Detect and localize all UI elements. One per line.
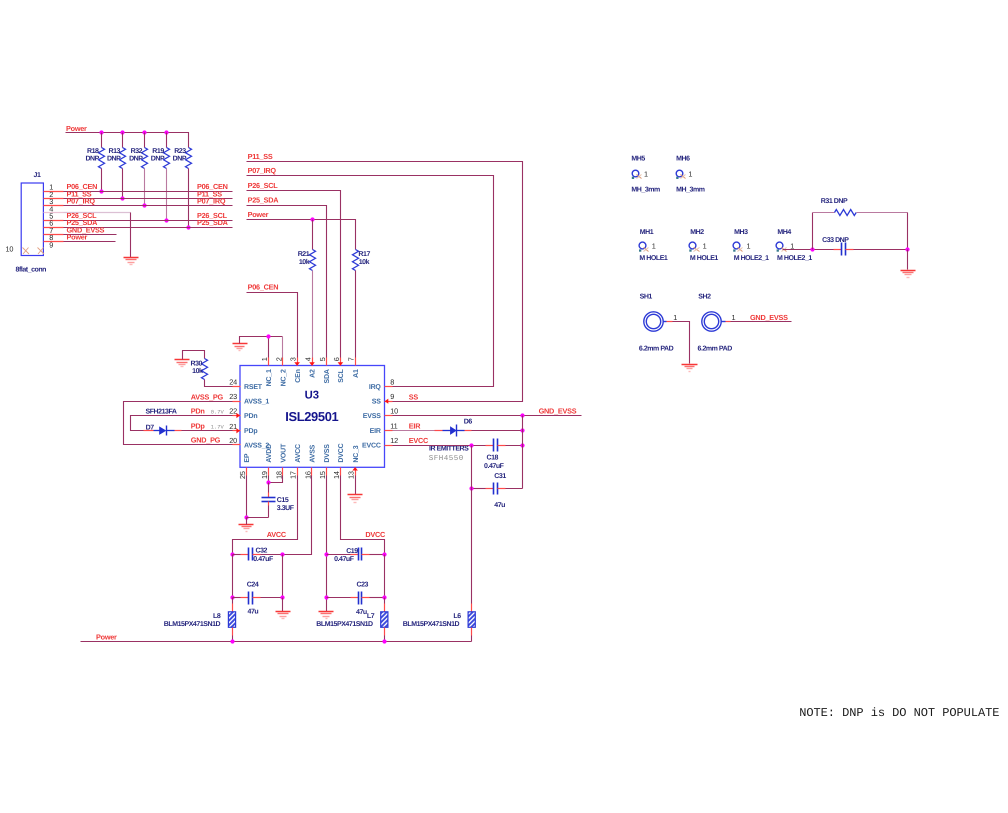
pad SH2 6.2mm bbox=[698, 294, 736, 353]
svg-text:EP: EP bbox=[244, 453, 251, 462]
wire C33 to ground corner bbox=[854, 249, 908, 251]
svg-text:NC_2: NC_2 bbox=[281, 369, 288, 386]
svg-text:5: 5 bbox=[318, 357, 327, 361]
svg-text:13: 13 bbox=[347, 471, 356, 479]
svg-text:EVCC: EVCC bbox=[409, 436, 429, 445]
wire SH2 GND_EVSS bbox=[731, 321, 792, 323]
diode D6 IR emitter bbox=[435, 419, 473, 437]
svg-text:17: 17 bbox=[289, 471, 298, 479]
wire P11_SS to pin 9 SS bbox=[247, 162, 523, 402]
junction bbox=[120, 130, 124, 134]
pin 16 AVSS bbox=[304, 444, 317, 479]
svg-text:47u: 47u bbox=[494, 502, 505, 509]
junction bbox=[99, 130, 103, 134]
wire L7 bottom lead bbox=[384, 628, 386, 636]
junction bbox=[142, 130, 146, 134]
junction bbox=[244, 515, 248, 519]
wire pin 13 NC_3 to ground bbox=[355, 476, 357, 495]
mounting hole MH5 bbox=[631, 156, 660, 194]
wire pin4 to ground bbox=[64, 212, 131, 214]
svg-text:EIR: EIR bbox=[370, 428, 381, 435]
mounting hole MH6 bbox=[676, 156, 705, 194]
wire ground chain vertical bbox=[522, 416, 524, 489]
svg-text:14: 14 bbox=[332, 471, 341, 479]
pin 10 EVSS bbox=[363, 407, 398, 420]
svg-text:DNP: DNP bbox=[107, 156, 121, 163]
wire EP to ground riser bbox=[246, 518, 248, 525]
svg-text:3: 3 bbox=[289, 357, 298, 361]
ferrite bead L6 BLM15PX471SN1D bbox=[403, 612, 476, 628]
wire R31 right vertical bbox=[907, 213, 909, 250]
svg-text:10k: 10k bbox=[299, 258, 310, 266]
wire L6 bottom lead bbox=[471, 628, 473, 636]
wire pin 15 DVSS down bbox=[326, 476, 328, 612]
svg-text:DNP: DNP bbox=[151, 156, 165, 163]
junction bbox=[324, 552, 328, 556]
svg-text:6.2mm PAD: 6.2mm PAD bbox=[698, 346, 733, 353]
svg-text:M HOLE2_1: M HOLE2_1 bbox=[777, 255, 812, 262]
svg-text:1: 1 bbox=[644, 169, 648, 178]
svg-text:U3: U3 bbox=[305, 389, 319, 401]
svg-text:P07_IRQ: P07_IRQ bbox=[248, 166, 277, 175]
svg-text:9: 9 bbox=[390, 392, 394, 401]
svg-text:19: 19 bbox=[260, 471, 269, 479]
svg-text:MH3: MH3 bbox=[734, 229, 748, 236]
svg-text:D6: D6 bbox=[464, 419, 473, 426]
wire P06_CEN row bbox=[64, 191, 233, 193]
svg-text:MH4: MH4 bbox=[777, 229, 791, 236]
svg-text:MH1: MH1 bbox=[640, 229, 654, 236]
svg-text:A2: A2 bbox=[310, 369, 317, 378]
resistor R31 DNP bbox=[813, 198, 908, 215]
svg-text:IRQ: IRQ bbox=[369, 384, 382, 391]
pin 8 of J1 bbox=[44, 241, 64, 243]
svg-text:C32: C32 bbox=[256, 548, 268, 555]
junction bbox=[810, 247, 814, 251]
svg-text:R32: R32 bbox=[131, 148, 143, 155]
wire P06_CEN to pin 3 CEn bbox=[247, 293, 298, 358]
pin 13 NC_3 bbox=[347, 445, 360, 479]
svg-text:1: 1 bbox=[673, 313, 677, 322]
wire pin 14 DVCC down bbox=[341, 476, 385, 555]
op-amp U1 IC U3 ISL29501 body bbox=[240, 366, 385, 468]
mounting hole MH2 bbox=[689, 229, 718, 262]
svg-text:8: 8 bbox=[390, 378, 394, 387]
svg-text:Power: Power bbox=[96, 633, 117, 642]
svg-text:6: 6 bbox=[332, 357, 341, 361]
wire P11_SS row bbox=[64, 198, 233, 200]
svg-text:L7: L7 bbox=[367, 613, 375, 620]
junction bbox=[120, 196, 124, 200]
wire R30 to pin 24 RSET bbox=[205, 380, 233, 387]
junction bbox=[230, 595, 234, 599]
svg-text:0.7V: 0.7V bbox=[211, 410, 225, 416]
junction bbox=[230, 552, 234, 556]
wire to ground bbox=[907, 250, 909, 270]
ground bbox=[682, 365, 698, 372]
pin 14 DVCC bbox=[332, 443, 345, 479]
svg-text:25: 25 bbox=[238, 471, 247, 479]
resistor R17 10k bbox=[353, 250, 371, 271]
svg-text:47u: 47u bbox=[248, 609, 259, 616]
wire bottom Power rail bbox=[81, 641, 472, 643]
pin 2 of J1 bbox=[44, 198, 64, 200]
junction bbox=[469, 486, 473, 490]
svg-text:SS: SS bbox=[409, 392, 419, 401]
junction bbox=[382, 639, 386, 643]
svg-text:8flat_conn: 8flat_conn bbox=[16, 265, 47, 273]
svg-text:MH_3mm: MH_3mm bbox=[676, 187, 705, 194]
svg-text:EIR: EIR bbox=[409, 422, 421, 431]
svg-text:SCL: SCL bbox=[338, 368, 345, 382]
svg-text:IR EMITTERS: IR EMITTERS bbox=[429, 446, 469, 453]
svg-text:3.3UF: 3.3UF bbox=[277, 505, 295, 512]
svg-text:DVCC: DVCC bbox=[365, 530, 386, 539]
wire Power rail to R23 bbox=[66, 133, 189, 148]
wire L7 top lead bbox=[384, 604, 386, 612]
svg-text:23: 23 bbox=[229, 392, 237, 401]
svg-text:RSET: RSET bbox=[244, 384, 263, 391]
pin 1 NC_1 bbox=[260, 357, 273, 386]
svg-text:C19: C19 bbox=[346, 548, 358, 555]
svg-text:11: 11 bbox=[390, 422, 397, 431]
wire SH1 to ground bbox=[673, 322, 690, 364]
svg-text:AVCC: AVCC bbox=[267, 530, 287, 539]
wire C32 to C24 vertical left bbox=[232, 555, 234, 598]
wire GND_EVSS stub bbox=[64, 234, 117, 236]
capacitor C31 47u bbox=[486, 473, 507, 509]
pin 8 IRQ bbox=[369, 378, 394, 391]
wire DVCC vertical bbox=[384, 555, 386, 598]
svg-text:MH5: MH5 bbox=[631, 156, 645, 163]
wire P07_IRQ row bbox=[64, 205, 233, 207]
wire L8 top bbox=[232, 598, 234, 604]
wire D6 cathode to ground net bbox=[472, 430, 523, 432]
wire L7 to power rail bbox=[384, 636, 386, 642]
svg-text:AVCC: AVCC bbox=[295, 444, 302, 463]
svg-text:EVCC: EVCC bbox=[362, 442, 381, 449]
pin 6 of J1 bbox=[44, 227, 64, 229]
svg-text:1.7V: 1.7V bbox=[211, 424, 225, 430]
svg-text:GND_EVSS: GND_EVSS bbox=[539, 406, 577, 415]
svg-text:2: 2 bbox=[274, 357, 283, 361]
svg-text:R17: R17 bbox=[358, 251, 370, 258]
svg-text:24: 24 bbox=[229, 378, 237, 387]
svg-text:J1: J1 bbox=[34, 172, 41, 179]
wire L8 top lead bbox=[232, 604, 234, 612]
wire pin 25 EP down bbox=[246, 476, 248, 518]
junction bbox=[142, 203, 146, 207]
junction bbox=[99, 189, 103, 193]
pin 7 A1 bbox=[347, 357, 360, 378]
pin 23 AVSS_1 bbox=[229, 392, 269, 405]
wire pin 22 PDn loop bbox=[131, 416, 233, 431]
svg-text:D7: D7 bbox=[146, 424, 155, 431]
svg-text:R30: R30 bbox=[191, 360, 203, 367]
wire to pin 2 NC_2 bbox=[282, 337, 284, 358]
svg-text:10k: 10k bbox=[192, 367, 203, 375]
svg-text:SFH213FA: SFH213FA bbox=[146, 409, 177, 416]
junction bbox=[469, 443, 473, 447]
capacitor C15 3.3UF bbox=[262, 483, 295, 518]
wire pin 11 EIR to D6 bbox=[393, 430, 435, 432]
svg-text:PDp: PDp bbox=[244, 428, 257, 435]
svg-text:1: 1 bbox=[260, 357, 269, 361]
svg-text:AVSS: AVSS bbox=[310, 444, 317, 462]
wire P26_SCL to pin 6 SCL bbox=[247, 191, 341, 358]
svg-text:1: 1 bbox=[747, 241, 751, 250]
svg-text:22: 22 bbox=[229, 407, 237, 416]
svg-text:CEn: CEn bbox=[295, 369, 302, 382]
mounting hole MH1 bbox=[639, 229, 668, 262]
resistor R19 DNP bbox=[151, 133, 170, 221]
pin 6 SCL bbox=[332, 357, 345, 383]
pin 1 of J1 bbox=[44, 191, 64, 193]
pin 5 of J1 bbox=[44, 220, 64, 222]
resistor R23 DNP bbox=[173, 148, 192, 228]
wire to pin 1 NC_1 bbox=[268, 337, 270, 358]
svg-text:SDA: SDA bbox=[324, 369, 331, 383]
wire pin 18 VOUT to AVDD bbox=[269, 476, 283, 483]
wire to ground bbox=[282, 598, 284, 612]
svg-text:NOTE: DNP is DO NOT POPULATE: NOTE: DNP is DO NOT POPULATE bbox=[799, 706, 999, 720]
wire EP junction to C15 bbox=[247, 517, 269, 519]
svg-text:BLM15PX471SN1D: BLM15PX471SN1D bbox=[403, 621, 460, 628]
svg-text:21: 21 bbox=[229, 422, 237, 431]
pin 5 SDA bbox=[318, 357, 331, 383]
svg-text:L8: L8 bbox=[213, 613, 221, 620]
svg-text:0.47uF: 0.47uF bbox=[334, 556, 355, 563]
ground bbox=[175, 360, 190, 367]
svg-text:P25_SDA: P25_SDA bbox=[197, 218, 229, 227]
svg-text:47u: 47u bbox=[356, 609, 367, 616]
wire L8 bottom lead bbox=[232, 628, 234, 636]
wire ground to NC pins bbox=[240, 337, 283, 344]
junction bbox=[520, 428, 524, 432]
ground bbox=[233, 344, 248, 351]
wire MH4 to network bbox=[783, 249, 834, 251]
wire C32 to C24 vertical right bbox=[282, 555, 284, 598]
pin 4 of J1 bbox=[44, 212, 64, 214]
junction bbox=[266, 480, 270, 484]
junction bbox=[520, 443, 524, 447]
wire EVCC vertical to L6 bbox=[471, 446, 473, 604]
svg-text:DNP: DNP bbox=[129, 156, 143, 163]
junction bbox=[324, 595, 328, 599]
svg-text:M HOLE1: M HOLE1 bbox=[639, 255, 668, 262]
resistor R30 10k bbox=[191, 359, 208, 380]
svg-text:1: 1 bbox=[688, 169, 692, 178]
wire C31 right bbox=[506, 488, 523, 490]
svg-text:P07_IRQ: P07_IRQ bbox=[67, 197, 96, 206]
pin 7 of J1 bbox=[44, 234, 64, 236]
junction bbox=[164, 218, 168, 222]
svg-text:DNP: DNP bbox=[173, 156, 187, 163]
capacitor C19 0.47uF bbox=[327, 548, 385, 563]
wire P25_SDA row bbox=[64, 227, 233, 229]
svg-text:P07_IRQ: P07_IRQ bbox=[197, 197, 226, 206]
mounting hole MH4 bbox=[776, 229, 812, 262]
svg-text:20: 20 bbox=[229, 436, 237, 445]
wire L7 top bbox=[384, 598, 386, 604]
capacitor C32 0.47uF bbox=[233, 548, 283, 564]
connector J1 8flat_conn bbox=[6, 172, 47, 273]
svg-text:L6: L6 bbox=[453, 613, 461, 620]
svg-text:ISL29501: ISL29501 bbox=[285, 409, 338, 424]
svg-text:SFH4550: SFH4550 bbox=[429, 454, 464, 463]
mounting hole MH3 bbox=[733, 229, 769, 262]
svg-text:AVSS_1: AVSS_1 bbox=[244, 399, 269, 406]
wire P07_IRQ to pin 8 IRQ bbox=[247, 176, 494, 387]
junction bbox=[905, 247, 909, 251]
svg-text:10: 10 bbox=[390, 407, 398, 416]
pin 24 RSET bbox=[229, 378, 263, 391]
svg-text:C31: C31 bbox=[494, 473, 506, 480]
junction bbox=[280, 595, 284, 599]
junction bbox=[382, 595, 386, 599]
svg-text:4: 4 bbox=[304, 357, 313, 361]
ground bbox=[319, 612, 334, 619]
svg-text:PDn: PDn bbox=[191, 407, 205, 416]
ground bbox=[239, 525, 254, 532]
svg-text:A1: A1 bbox=[353, 369, 360, 378]
junction bbox=[382, 552, 386, 556]
junction bbox=[186, 225, 190, 229]
ground bbox=[124, 258, 139, 265]
resistor R32 DNP bbox=[129, 133, 147, 206]
wire L8 to power rail bbox=[232, 636, 234, 642]
wire ground to R30 bbox=[183, 351, 205, 360]
wire C18 to ground net bbox=[506, 445, 523, 447]
svg-text:6.2mm PAD: 6.2mm PAD bbox=[639, 346, 674, 353]
resistor R18 DNP bbox=[85, 133, 104, 192]
svg-text:7: 7 bbox=[347, 357, 356, 361]
svg-text:P11_SS: P11_SS bbox=[248, 152, 273, 161]
wire L6 to power rail bbox=[471, 636, 473, 642]
pin 2 NC_2 bbox=[274, 357, 287, 386]
svg-text:DVCC: DVCC bbox=[338, 443, 345, 462]
pin 9 SS bbox=[372, 392, 395, 405]
svg-text:R31 DNP: R31 DNP bbox=[821, 198, 848, 205]
svg-text:Power: Power bbox=[248, 210, 269, 219]
svg-text:Power: Power bbox=[66, 124, 87, 133]
svg-text:C24: C24 bbox=[247, 581, 259, 588]
svg-text:12: 12 bbox=[390, 436, 398, 445]
svg-text:10k: 10k bbox=[359, 258, 370, 266]
wire pin 16 AVSS down bbox=[283, 476, 312, 555]
svg-text:AVDD: AVDD bbox=[266, 444, 273, 463]
svg-text:GND_EVSS: GND_EVSS bbox=[750, 313, 788, 322]
svg-text:EVSS: EVSS bbox=[363, 413, 381, 420]
svg-text:BLM15PX471SN1D: BLM15PX471SN1D bbox=[316, 621, 373, 628]
svg-text:MH_3mm: MH_3mm bbox=[631, 187, 660, 194]
svg-text:SH1: SH1 bbox=[640, 294, 653, 301]
svg-text:VOUT: VOUT bbox=[281, 443, 288, 463]
svg-text:SH2: SH2 bbox=[698, 294, 711, 301]
svg-text:R21: R21 bbox=[298, 251, 310, 258]
svg-text:NC_1: NC_1 bbox=[266, 369, 273, 386]
svg-text:R18: R18 bbox=[87, 148, 99, 155]
svg-text:MH2: MH2 bbox=[690, 229, 704, 236]
svg-text:R23: R23 bbox=[174, 148, 186, 155]
svg-text:P06_CEN: P06_CEN bbox=[248, 283, 279, 292]
pin 4 A2 bbox=[304, 357, 317, 378]
wire R21 to pin 4 A2 bbox=[312, 271, 314, 358]
svg-text:DNP: DNP bbox=[85, 156, 99, 163]
wire Power stub bbox=[64, 241, 116, 243]
wire L6 top lead bbox=[471, 604, 473, 612]
svg-text:MH6: MH6 bbox=[676, 156, 690, 163]
junction bbox=[266, 334, 270, 338]
pin 11 EIR bbox=[370, 422, 398, 435]
wire pin 10 EVSS to GND_EVSS bbox=[393, 415, 582, 417]
wire pin 12 EVCC to C18 bbox=[393, 445, 486, 447]
diode D7 SFH213FA bbox=[144, 424, 182, 435]
ferrite bead L8 BLM15PX471SN1D bbox=[164, 612, 236, 628]
wire R31 left vertical bbox=[812, 213, 814, 250]
capacitor C18 0.47uF bbox=[484, 439, 506, 471]
junction bbox=[280, 552, 284, 556]
svg-text:R13: R13 bbox=[109, 148, 121, 155]
wire pin 19 AVDD down bbox=[268, 476, 270, 483]
svg-text:C33 DNP: C33 DNP bbox=[822, 237, 849, 244]
svg-text:M HOLE1: M HOLE1 bbox=[690, 255, 719, 262]
capacitor C24 47u bbox=[233, 581, 283, 615]
wire pin 17 AVCC down bbox=[233, 476, 298, 555]
pin 3 of J1 bbox=[44, 205, 64, 207]
wire AVSS_PG loop pin 23 to pin 20 bbox=[124, 402, 233, 445]
svg-text:PDn: PDn bbox=[244, 413, 257, 420]
capacitor C23 47u bbox=[327, 582, 385, 616]
svg-text:10: 10 bbox=[6, 245, 14, 254]
resistor R21 10k bbox=[298, 220, 316, 271]
wire P26_SCL row bbox=[64, 220, 233, 222]
capacitor C33 DNP bbox=[822, 237, 853, 256]
pin 18 VOUT bbox=[274, 443, 287, 479]
resistor R13 DNP bbox=[107, 133, 126, 199]
pin 12 EVCC bbox=[362, 436, 398, 449]
svg-text:C23: C23 bbox=[357, 582, 369, 589]
svg-text:DVSS: DVSS bbox=[324, 444, 331, 463]
wire C31 left to EVCC net bbox=[472, 488, 486, 490]
svg-text:P26_SCL: P26_SCL bbox=[248, 181, 279, 190]
pin 25 EP bbox=[238, 453, 251, 479]
pad SH1 6.2mm bbox=[639, 294, 677, 353]
ground bbox=[276, 612, 291, 619]
junction bbox=[230, 639, 234, 643]
pin 15 DVSS bbox=[318, 444, 331, 479]
svg-text:15: 15 bbox=[318, 471, 327, 479]
svg-text:P25_SDA: P25_SDA bbox=[248, 196, 280, 205]
ground bbox=[348, 495, 363, 503]
junction bbox=[310, 217, 314, 221]
svg-text:SS: SS bbox=[372, 399, 381, 406]
svg-text:1: 1 bbox=[652, 241, 656, 250]
svg-text:NC_3: NC_3 bbox=[353, 445, 360, 462]
svg-text:PDp: PDp bbox=[191, 421, 206, 430]
svg-text:BLM15PX471SN1D: BLM15PX471SN1D bbox=[164, 621, 221, 628]
svg-text:0.47uF: 0.47uF bbox=[253, 556, 274, 563]
svg-text:1: 1 bbox=[703, 241, 707, 250]
svg-text:Power: Power bbox=[67, 233, 88, 242]
svg-text:9: 9 bbox=[49, 240, 53, 249]
pin 3 CEn bbox=[289, 357, 302, 383]
svg-text:1: 1 bbox=[732, 313, 736, 322]
svg-text:0.47uF: 0.47uF bbox=[484, 463, 505, 470]
svg-text:C18: C18 bbox=[487, 455, 499, 462]
ground bbox=[901, 271, 916, 278]
pin 21 PDp bbox=[229, 422, 257, 435]
